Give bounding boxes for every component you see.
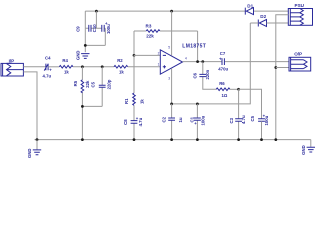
svg-text:R6: R6 bbox=[219, 81, 225, 86]
wire cap2 leg bbox=[196, 104, 198, 140]
svg-text:GND: GND bbox=[301, 145, 306, 155]
wire R6 to caps bbox=[230, 88, 239, 90]
node -in bbox=[133, 54, 136, 57]
svg-text:100u: 100u bbox=[106, 24, 111, 34]
node bus PSU gnd bbox=[274, 138, 277, 141]
svg-text:C5: C5 bbox=[91, 81, 96, 87]
svg-text:4.7u: 4.7u bbox=[43, 74, 52, 79]
connector I/P bbox=[1, 59, 23, 77]
capacitor C5 220p bbox=[91, 79, 112, 89]
ground GND right bbox=[301, 145, 315, 155]
resistor R3 22k bbox=[146, 23, 160, 38]
svg-text:C4: C4 bbox=[45, 55, 51, 60]
top V+ rail wire bbox=[85, 10, 245, 12]
capacitor C2 1u bbox=[162, 116, 184, 122]
svg-text:C10: C10 bbox=[92, 24, 97, 32]
wire right gnd stub bbox=[310, 140, 312, 147]
wire feedback right leg down to output bbox=[197, 31, 199, 62]
svg-text:R1: R1 bbox=[124, 98, 129, 104]
capacitor C9 bbox=[76, 25, 92, 32]
wire branch right bbox=[239, 89, 262, 118]
svg-text:5: 5 bbox=[168, 46, 170, 50]
wire left gnd stub bbox=[36, 140, 38, 150]
svg-text:1k: 1k bbox=[119, 70, 124, 75]
wire feedback top bbox=[134, 30, 198, 32]
wire D2 left to corner bbox=[250, 22, 258, 24]
resistor R5 22k bbox=[73, 80, 90, 93]
node zobel join bbox=[201, 60, 204, 63]
node bus C3 bbox=[237, 138, 240, 141]
diode D2 bbox=[258, 14, 266, 27]
svg-text:R4: R4 bbox=[62, 58, 68, 63]
capacitor C3 4.7u bbox=[229, 115, 246, 124]
capacitor C10 bbox=[92, 21, 111, 34]
svg-text:4.7u: 4.7u bbox=[241, 115, 246, 124]
ground GND left bbox=[27, 148, 41, 158]
wire feedback left leg down bbox=[133, 31, 135, 55]
svg-text:1u: 1u bbox=[178, 117, 183, 122]
svg-text:22k: 22k bbox=[146, 33, 154, 38]
svg-text:470u: 470u bbox=[218, 67, 228, 72]
svg-text:C9: C9 bbox=[76, 26, 81, 32]
svg-text:C3: C3 bbox=[229, 117, 234, 123]
svg-text:4: 4 bbox=[185, 57, 187, 61]
svg-text:100u: 100u bbox=[264, 115, 269, 125]
wire lower V rail bbox=[172, 23, 251, 104]
svg-text:C8: C8 bbox=[123, 119, 128, 125]
capacitor C5b 100u bbox=[250, 114, 269, 126]
wire capA leg bbox=[238, 89, 240, 139]
wire R1 leg bbox=[133, 55, 135, 139]
wire I/P pin1 to C4 bbox=[23, 66, 45, 68]
connector O/P bbox=[289, 52, 311, 71]
connector PSU bbox=[288, 3, 312, 25]
wire left leg down bbox=[84, 28, 86, 52]
wire D2 right to PSU pin4 bbox=[267, 22, 289, 24]
capacitor C6 220n (zobel) bbox=[193, 69, 210, 79]
resistor R4 1k bbox=[59, 58, 73, 75]
node zobel ground branch bbox=[237, 88, 240, 91]
svg-text:220p: 220p bbox=[106, 79, 111, 89]
svg-text:1k: 1k bbox=[64, 70, 69, 75]
node bus C5b bbox=[260, 138, 263, 141]
wire bottom loop of decoupling caps bbox=[85, 44, 105, 46]
capacitor C4 4.7u bbox=[43, 55, 53, 78]
node ground loop bbox=[84, 44, 87, 47]
wire cap1 leg bbox=[171, 104, 173, 140]
wire R4 to R2 bbox=[73, 66, 114, 68]
capacitor C1 100u bbox=[190, 115, 206, 125]
svg-text:22k: 22k bbox=[85, 80, 90, 88]
ground GND (top-left block) bbox=[76, 50, 90, 60]
wire C5 leg bbox=[101, 67, 103, 107]
svg-text:D1: D1 bbox=[247, 3, 253, 8]
node output jack ground bbox=[274, 66, 277, 69]
svg-text:R5: R5 bbox=[73, 80, 78, 86]
svg-text:2: 2 bbox=[158, 51, 160, 55]
wire to O/P pin2 bbox=[276, 67, 289, 69]
wire PSU pin2 to output ground bbox=[276, 15, 289, 140]
node bus C8 bbox=[133, 138, 136, 141]
wire R5-C5 bottom loop bbox=[82, 105, 102, 107]
wire D1 to PSU pin1 bbox=[254, 10, 289, 12]
wire top-left corner down bbox=[84, 11, 86, 28]
svg-text:3: 3 bbox=[168, 77, 170, 81]
node bus C2 bbox=[170, 138, 173, 141]
wire R5 leg bbox=[81, 67, 83, 140]
node feedback join bbox=[196, 60, 199, 63]
svg-text:C2: C2 bbox=[162, 116, 167, 122]
wire C4 to R4 bbox=[48, 66, 59, 68]
svg-text:220n: 220n bbox=[205, 69, 210, 79]
capacitor C7 470u bbox=[218, 51, 228, 71]
node R5 bottom bbox=[81, 105, 84, 108]
resistor R6 1R (zobel) bbox=[216, 81, 230, 98]
wire I/P pin2 stub bbox=[23, 72, 37, 140]
svg-text:1: 1 bbox=[158, 63, 160, 67]
svg-text:R3: R3 bbox=[146, 23, 152, 28]
node R5 junction bbox=[81, 65, 84, 68]
node bus I/P bbox=[36, 138, 39, 141]
node lower rail cap2 bbox=[196, 103, 199, 106]
wire right leg of C10 down bbox=[104, 28, 106, 45]
svg-text:LM1875T: LM1875T bbox=[182, 44, 206, 50]
node C5 junction bbox=[101, 65, 104, 68]
svg-text:C5: C5 bbox=[250, 115, 255, 121]
svg-text:1Ω: 1Ω bbox=[222, 93, 228, 98]
wire op-amp V+ pin bbox=[171, 11, 173, 56]
wire op-amp V- pin down bbox=[171, 68, 173, 104]
wire R2 to op-amp +in bbox=[128, 66, 161, 68]
node rail op-amp supply bbox=[170, 10, 173, 13]
svg-text:R2: R2 bbox=[117, 58, 123, 63]
node bus C1 bbox=[196, 138, 199, 141]
node bus R5 bbox=[81, 138, 84, 141]
svg-text:GND: GND bbox=[27, 148, 32, 158]
svg-text:100u: 100u bbox=[200, 115, 205, 125]
wire decoupling cap row bbox=[85, 27, 105, 29]
wire C10 branch down bbox=[95, 11, 97, 28]
svg-text:C6: C6 bbox=[193, 72, 198, 78]
svg-text:D2: D2 bbox=[260, 14, 266, 19]
svg-text:1k: 1k bbox=[139, 99, 144, 104]
svg-text:PSU: PSU bbox=[295, 3, 305, 8]
svg-text:4.7u: 4.7u bbox=[138, 117, 143, 126]
wire -in to op-amp bbox=[134, 54, 160, 56]
resistor R1 1k bbox=[124, 93, 144, 105]
node lower rail start bbox=[170, 103, 173, 106]
svg-text:GND: GND bbox=[76, 50, 81, 60]
wire capB leg bottom bbox=[261, 121, 263, 139]
node rail C10 branch bbox=[95, 10, 98, 13]
wire zobel cap leg bbox=[203, 62, 216, 90]
diode D1 bbox=[245, 3, 253, 14]
svg-text:I/P: I/P bbox=[9, 59, 15, 64]
svg-text:O/P: O/P bbox=[294, 52, 302, 57]
wire output row bbox=[183, 61, 290, 63]
capacitor C8 4.7u bbox=[123, 116, 143, 127]
ground bus wire bbox=[35, 139, 311, 141]
op-amp U1 LM1875T bbox=[158, 44, 207, 81]
resistor R2 1k bbox=[114, 58, 128, 75]
